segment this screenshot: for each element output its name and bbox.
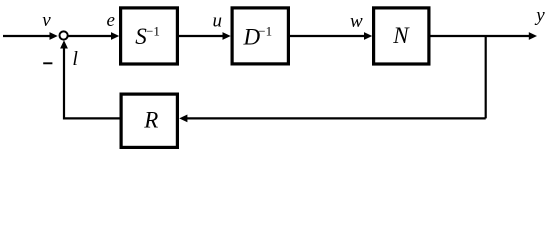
node: summing junction [60,31,68,39]
block N [374,8,429,64]
svg-text:y: y [534,5,545,26]
block R [121,94,177,147]
svg-text:e: e [107,10,115,31]
wire: junction to S block with label e [68,32,119,40]
wire: D to N with label w [290,32,372,40]
wire: S to D with label u [179,32,231,40]
svg-text:−1: −1 [258,24,272,39]
svg-text:w: w [350,11,363,32]
wire: branch down from output [485,36,487,118]
svg-text:l: l [72,48,78,70]
svg-text:N: N [392,23,410,48]
wire: N to output y [431,32,538,40]
svg-text:−1: −1 [146,23,160,38]
svg-text:u: u [213,11,223,32]
svg-text:R: R [143,108,158,133]
svg-text:v: v [42,10,51,31]
label minus [43,62,52,64]
wire: input v into summing junction [3,32,58,40]
wire: R back to summing junction [60,40,119,118]
block D^-1 [232,8,288,64]
wire: feedback into R [179,115,486,123]
block S^-1 [121,8,178,64]
